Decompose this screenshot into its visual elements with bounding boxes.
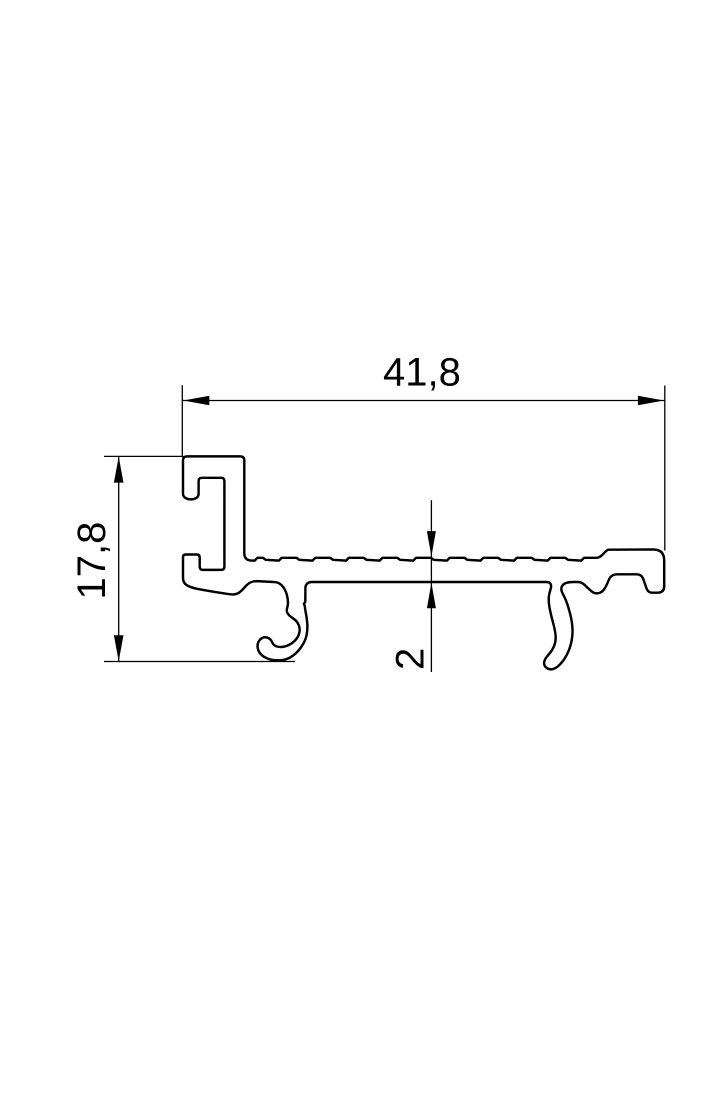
dimension 2 : arrow pointing down at web top	[427, 531, 436, 557]
dimension 41,8 : extension line left	[181, 385, 183, 457]
dimension 41,8 : extension line right	[664, 386, 666, 551]
dimension 17,8 : extension line top	[104, 455, 184, 457]
dimension 17,8 : arrow top	[114, 457, 124, 483]
dimension 41,8 : arrow left	[183, 396, 209, 405]
dimension 17,8 : dimension line	[118, 456, 120, 661]
dimension 41,8 : arrow right	[638, 396, 664, 405]
svg-text:17,8: 17,8	[70, 522, 114, 600]
dimension 2 : arrow pointing up at web bottom	[427, 583, 436, 609]
dimension 17,8 : extension line bottom	[104, 661, 295, 663]
dimension 17,8 : arrow bottom	[114, 635, 124, 661]
svg-text:2: 2	[388, 648, 432, 670]
profile outline (aluminium extrusion cross-section)	[183, 456, 664, 669]
svg-text:41,8: 41,8	[383, 351, 461, 395]
dimension 41,8 : dimension line	[183, 400, 664, 402]
dimension 2 : dimension line through web	[430, 500, 432, 672]
